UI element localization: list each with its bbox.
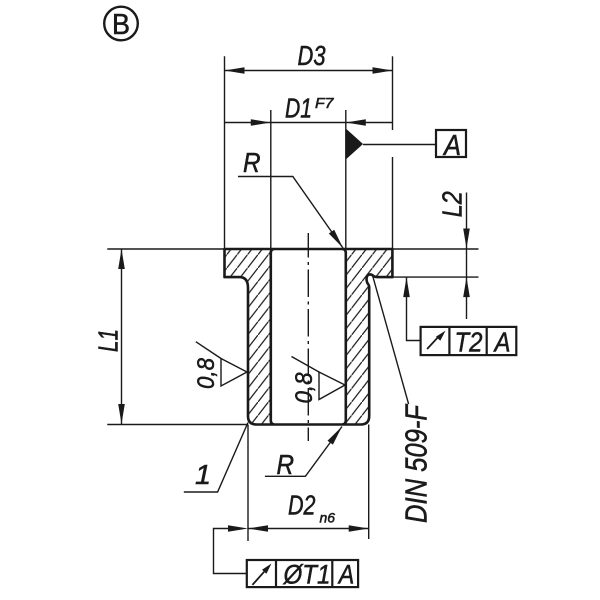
surface roughness 0,8 bore (right)	[292, 357, 346, 400]
dimension D1 F7	[225, 110, 393, 249]
svg-text:T2: T2	[455, 327, 483, 358]
bushing section outline with hatching	[225, 249, 393, 425]
surface roughness 0,8 outer (left)	[196, 342, 247, 386]
dimension D2 n6	[248, 425, 369, 542]
svg-text:A: A	[442, 130, 461, 162]
svg-text:A: A	[337, 560, 354, 590]
svg-text:1: 1	[195, 459, 211, 490]
feature control frame T2|A	[407, 277, 421, 340]
centerline	[307, 233, 309, 441]
svg-text:D1: D1	[285, 93, 312, 124]
svg-text:R: R	[277, 449, 295, 480]
dimension D3	[225, 56, 393, 249]
svg-text:ØT1: ØT1	[283, 560, 331, 590]
view label B	[104, 7, 138, 41]
svg-text:L1: L1	[92, 329, 123, 352]
svg-text:D2: D2	[288, 490, 316, 521]
svg-text:F7: F7	[315, 95, 334, 112]
datum A flag	[346, 129, 363, 160]
svg-text:R: R	[243, 147, 261, 178]
svg-text:A: A	[493, 327, 511, 358]
dimension L2	[393, 193, 479, 320]
label DIN 509-F (undercut)	[373, 276, 409, 404]
svg-text:0,8: 0,8	[193, 357, 220, 389]
svg-text:D3: D3	[298, 40, 327, 71]
svg-text:DIN 509-F: DIN 509-F	[399, 403, 434, 523]
svg-text:L2: L2	[437, 191, 468, 217]
svg-text:0,8: 0,8	[291, 372, 318, 404]
svg-text:n6: n6	[320, 510, 336, 526]
feature control frame ØT1|A	[214, 529, 247, 574]
svg-text:B: B	[112, 9, 130, 41]
dimension L1	[107, 249, 248, 425]
